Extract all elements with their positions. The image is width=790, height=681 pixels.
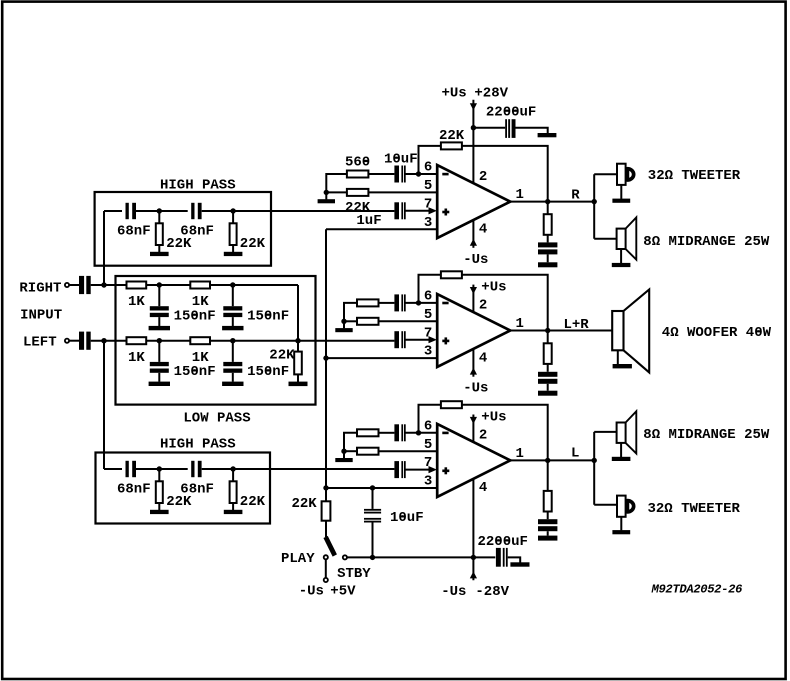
svg-text:+28V: +28V <box>474 86 508 102</box>
svg-text:5: 5 <box>424 437 432 453</box>
op-amp U1 (R channel) capacitor 2200uF supply <box>505 119 507 138</box>
top resistor 22K first <box>156 223 163 245</box>
wire 22K to ground <box>297 374 299 382</box>
svg-text:6: 6 <box>424 289 432 305</box>
svg-text:HIGH PASS: HIGH PASS <box>160 437 236 453</box>
node RIGHT input junction <box>101 282 106 287</box>
tweeter R (32ohm) dome <box>627 169 633 180</box>
op-amp U3 (L channel) -28V arrow up <box>470 571 477 578</box>
midrange R (8ohm) ground <box>612 263 631 267</box>
svg-text:1K: 1K <box>192 294 209 310</box>
op-amp U1 (R channel) node speaker branch <box>592 199 597 204</box>
op-amp U1 (R channel) -Us arrow up <box>470 239 477 246</box>
svg-text:5: 5 <box>424 307 432 323</box>
low-pass right-row node after first 1K <box>157 282 162 287</box>
op-amp U1 (R channel) ground 2200uF <box>538 133 557 137</box>
low-pass right-row wire r1 to r2 <box>146 284 190 286</box>
bottom wire cap2 to output <box>202 468 395 470</box>
tweeter R (32ohm) wire to ground <box>620 185 622 199</box>
op-amp U1 (R channel) wire zobel capacitor to ground <box>547 254 549 262</box>
top wire input to first 68nF cap <box>104 210 122 212</box>
low-pass right-row wire 150nF to ground second <box>232 317 234 326</box>
svg-text:-28V: -28V <box>475 584 509 600</box>
svg-text:22K: 22K <box>240 236 266 252</box>
svg-text:32Ω TWEETER: 32Ω TWEETER <box>648 168 741 184</box>
op-amp U2 (L+R woofer) node pin6 feedback tap <box>416 300 421 305</box>
op-amp U2 (L+R woofer) resistor 22K to pin5 <box>357 318 379 325</box>
node 10uF to STBY wire <box>370 555 375 560</box>
ground low-pass <box>289 382 308 387</box>
midrange L (8ohm) cone <box>626 411 637 453</box>
low-pass left-row wire r1 to r2 <box>146 340 190 342</box>
tweeter R (32ohm) ground <box>612 199 630 203</box>
low-pass left-row wire 150nF to ground second <box>232 373 234 382</box>
op-amp U3 (L channel) node output <box>545 458 550 463</box>
op-amp U2 (L+R woofer) wire pin3 to rail <box>326 357 437 359</box>
midrange L (8ohm) wire to ground <box>620 443 622 457</box>
op-amp U3 (L channel) feedback resistor 22K <box>441 401 462 408</box>
svg-text:+Us: +Us <box>442 86 467 102</box>
bottom resistor 22K first <box>156 481 163 503</box>
low-pass left-row resistor 1K second <box>190 337 210 344</box>
op-amp U3 (L channel) wire zobel capacitor to ground <box>547 531 549 535</box>
capacitor 10uF standby <box>364 509 381 511</box>
svg-text:1K: 1K <box>192 350 209 366</box>
wire pin3 node down to 10uF <box>372 488 374 509</box>
switch STBY contact <box>343 555 347 559</box>
low-pass left-row node after second 1K <box>230 338 235 343</box>
op-amp U3 (L channel) wire 560 left lead <box>344 433 357 451</box>
svg-text:M92TDA2052-26: M92TDA2052-26 <box>651 583 743 597</box>
bottom wire resistor to ground first <box>158 503 160 510</box>
low-pass left-row wire node to 150nF first <box>158 341 160 362</box>
svg-text:R: R <box>571 188 580 204</box>
svg-text:4: 4 <box>479 480 487 496</box>
low-pass left-row wire r2 onward <box>210 340 298 342</box>
tweeter R (32ohm) body <box>617 164 626 185</box>
op-amp U1 (R channel) minus sign <box>442 173 448 176</box>
op-amp U1 (R channel) feedback wire up from pin6 <box>419 146 441 174</box>
svg-text:INPUT: INPUT <box>20 307 62 323</box>
svg-text:68nF: 68nF <box>180 224 214 240</box>
woofer body <box>612 311 623 350</box>
top high-pass box <box>95 192 271 266</box>
op-amp U3 (L channel) wire output to zobel resistor <box>547 460 549 491</box>
midrange R (8ohm) cone <box>626 217 637 259</box>
svg-text:3: 3 <box>424 474 432 490</box>
op-amp U2 (L+R woofer) feedback resistor 22K <box>441 271 462 278</box>
top wire cap2 to output <box>202 210 395 212</box>
op-amp U3 (L channel) zobel resistor <box>544 491 552 512</box>
op-amp U3 (L channel) amplifier triangle <box>437 424 510 497</box>
top wire resistor to ground second <box>232 245 234 252</box>
low-pass right-row capacitor 150nF first <box>150 306 169 310</box>
resistor 22K standby <box>322 501 331 520</box>
op-amp U3 (L channel) wire output <box>510 459 594 461</box>
op-amp U2 (L+R woofer) wire junction to 22K left lead <box>344 320 357 322</box>
op-amp U3 (L channel) wire junction to 22K left lead <box>344 450 357 452</box>
svg-text:8Ω MIDRANGE 25W: 8Ω MIDRANGE 25W <box>643 234 770 250</box>
op-amp U1 (R channel) wire supply to 2200uF cap <box>473 127 505 129</box>
op-amp U2 (L+R woofer) supply arrow down <box>470 287 477 294</box>
op-amp U2 (L+R woofer) node resistor junction <box>341 319 346 324</box>
svg-text:L: L <box>571 445 579 461</box>
op-amp U1 (R channel) wire +28V supply to pin2 <box>472 100 474 184</box>
bottom ground first <box>150 510 169 514</box>
midrange L (8ohm) ground <box>612 457 631 461</box>
svg-text:PLAY: PLAY <box>281 551 315 567</box>
bottom high-pass box <box>96 453 271 524</box>
svg-text:STBY: STBY <box>337 566 371 582</box>
svg-text:2: 2 <box>479 298 487 314</box>
top capacitor 68nF second <box>191 203 194 219</box>
svg-text:2200uF: 2200uF <box>486 104 536 120</box>
low-pass left-row ground second <box>222 382 243 386</box>
op-amp U2 (L+R woofer) wire 560 to 10uF cap <box>379 302 395 304</box>
midrange R (8ohm) body <box>617 229 626 249</box>
switch lever <box>326 537 335 556</box>
svg-text:8Ω MIDRANGE 25W: 8Ω MIDRANGE 25W <box>643 427 770 443</box>
top node after second 68nF <box>230 208 235 213</box>
op-amp U1 (R channel) resistor 22K to pin5 <box>347 189 369 196</box>
top ground first <box>150 252 169 256</box>
op-amp U1 (R channel) wire 560 to 10uF cap <box>368 173 394 175</box>
svg-text:68nF: 68nF <box>117 224 151 240</box>
woofer ground <box>613 364 632 368</box>
op-amp U3 (L channel) capacitor 1uF series <box>394 461 399 478</box>
op-amp U2 (L+R woofer) wire output <box>510 330 612 332</box>
svg-text:3: 3 <box>424 215 432 231</box>
op-amp U3 (L channel) ground at input resistors <box>335 458 352 462</box>
PLAY lower terminal <box>324 578 328 582</box>
low-pass left-row node after first 1K <box>157 338 162 343</box>
svg-text:6: 6 <box>424 160 432 176</box>
svg-text:560: 560 <box>345 155 370 171</box>
op-amp U2 (L+R woofer) node output <box>545 328 550 333</box>
low-pass left-row wire node to 150nF second <box>232 341 234 362</box>
RIGHT input terminal <box>65 283 69 287</box>
svg-text:32Ω TWEETER: 32Ω TWEETER <box>648 501 741 517</box>
svg-text:150nF: 150nF <box>174 364 216 380</box>
wire LEFT terminal to coupling cap <box>69 340 79 342</box>
op-amp U1 (R channel) plus sign <box>442 211 449 214</box>
svg-text:-Us: -Us <box>463 381 488 397</box>
wire sum node to 22K resistor <box>297 341 299 352</box>
low-pass right-row resistor 1K first <box>127 282 147 289</box>
bottom wire node to 22K resistor first <box>158 469 160 481</box>
op-amp U1 (R channel) wire output <box>510 201 594 203</box>
op-amp U1 (R channel) wire 22K to pin5 <box>368 191 437 193</box>
low-pass right-row wire node to 150nF second <box>232 285 234 306</box>
switch PLAY contact <box>324 555 328 559</box>
ground 2200uF bottom <box>510 562 529 566</box>
svg-text:+5V: +5V <box>330 583 356 599</box>
low-pass right-row wire r2 onward <box>210 284 298 286</box>
svg-text:-Us: -Us <box>463 252 488 268</box>
op-amp U1 (R channel) node supply to 2200uF <box>471 125 476 130</box>
op-amp U2 (L+R woofer) capacitor 10uF series <box>394 294 399 311</box>
wire right-row down to left-row (sum node) <box>297 285 299 341</box>
svg-text:2: 2 <box>479 169 487 185</box>
op-amp U1 (R channel) wire 1uF to pin7 <box>405 210 429 212</box>
low-pass box <box>116 276 316 405</box>
op-amp U1 (R channel) feedback resistor 22K <box>441 142 462 149</box>
tweeter R (32ohm) wire <box>594 173 617 175</box>
midrange L (8ohm) wire <box>594 431 616 433</box>
svg-text:1uF: 1uF <box>356 213 381 229</box>
op-amp U2 (L+R woofer) wire 1uF to pin7 <box>405 339 429 341</box>
op-amp U3 (L channel) ground zobel <box>538 536 557 541</box>
op-amp U1 (R channel) wire junction to 22K left lead <box>326 191 347 193</box>
wire 10uF to STBY wire <box>372 522 374 557</box>
svg-text:2: 2 <box>479 428 487 444</box>
midrange R (8ohm) wire <box>594 238 616 240</box>
svg-text:68nF: 68nF <box>180 482 214 498</box>
node rail to bottom amp pin3 <box>323 485 328 490</box>
op-amp U2 (L+R woofer) wire pin4 to -Us <box>472 349 474 377</box>
svg-text:68nF: 68nF <box>117 482 151 498</box>
op-amp U1 (R channel) wire pin3 to rail <box>326 228 437 230</box>
svg-text:7: 7 <box>424 196 432 212</box>
svg-text:4: 4 <box>479 350 487 366</box>
svg-text:+Us: +Us <box>481 280 506 296</box>
svg-text:10uF: 10uF <box>384 151 418 167</box>
tweeter L (32ohm) body <box>617 496 626 517</box>
wire 2200uF to ground <box>508 557 521 562</box>
svg-text:LEFT: LEFT <box>23 335 57 351</box>
bottom node after second 68nF <box>230 466 235 471</box>
op-amp U1 (R channel) node resistor junction <box>324 190 329 195</box>
op-amp U1 (R channel) zobel capacitor <box>538 242 557 247</box>
op-amp U1 (R channel) node output <box>545 199 550 204</box>
wire LEFT cap to low-pass box <box>91 340 127 342</box>
node L+R sum <box>295 338 300 343</box>
op-amp U3 (L channel) minus sign <box>442 432 448 435</box>
svg-text:22K: 22K <box>292 496 318 512</box>
low-pass right-row node after second 1K <box>230 282 235 287</box>
top node after first 68nF <box>157 208 162 213</box>
op-amp U1 (R channel) capacitor 1uF series <box>394 202 399 219</box>
svg-text:2200uF: 2200uF <box>478 534 528 550</box>
low-pass right-row resistor 1K second <box>190 282 210 289</box>
node LEFT input junction <box>101 338 106 343</box>
low-pass left-row capacitor 150nF first <box>150 362 169 366</box>
op-amp U1 (R channel) input resistor to pin6 (560) <box>347 171 369 178</box>
op-amp U1 (R channel) wire 560 left lead <box>326 174 347 192</box>
top capacitor 68nF first <box>126 203 129 219</box>
resistor 22K low-pass shunt <box>294 352 302 375</box>
op-amp U3 (L channel) resistor 22K to pin5 <box>357 448 379 455</box>
op-amp U2 (L+R woofer) capacitor 1uF series <box>394 331 399 348</box>
op-amp U2 (L+R woofer) feedback wire up from pin6 <box>419 275 441 303</box>
op-amp U3 (L channel) wire 560 to 10uF cap <box>379 432 395 434</box>
op-amp U2 (L+R woofer) plus sign <box>442 340 449 343</box>
LEFT input terminal <box>65 339 69 343</box>
op-amp U2 (L+R woofer) wire +Us to pin2 <box>472 285 474 313</box>
op-amp U3 (L channel) node pin6 feedback tap <box>416 430 421 435</box>
bottom resistor 22K second <box>230 481 237 503</box>
low-pass right-row wire node to 150nF first <box>158 285 160 306</box>
svg-text:4: 4 <box>479 221 487 237</box>
op-amp U1 (R channel) wire zobel resistor to capacitor <box>547 235 549 243</box>
op-amp U2 (L+R woofer) -Us arrow up <box>470 368 477 375</box>
bottom wire cap1 to cap2 <box>136 468 188 470</box>
low-pass left-row ground first <box>149 382 170 386</box>
op-amp U1 (R channel) zobel resistor <box>544 214 552 235</box>
op-amp U1 (R channel) wire junction to ground <box>325 192 327 199</box>
svg-text:5: 5 <box>424 178 432 194</box>
wire LEFT junction down to bottom high-pass <box>103 341 105 469</box>
wire standby resistor to switch <box>325 521 327 537</box>
wire pin3 rail vertical <box>325 229 327 501</box>
op-amp U3 (L channel) wire 22K to pin5 <box>379 450 438 452</box>
op-amp U2 (L+R woofer) wire zobel resistor to capacitor <box>547 364 549 372</box>
wire RIGHT junction up to top high-pass <box>103 211 105 285</box>
op-amp U2 (L+R woofer) wire output to zobel resistor <box>547 331 549 344</box>
wire L output branch vertical <box>593 432 595 505</box>
low-pass right-row ground second <box>222 326 243 330</box>
op-amp U3 (L channel) wire 10uF to pin6 <box>405 432 437 434</box>
op-amp U1 (R channel) ground at input resistors <box>318 199 335 203</box>
bottom wire node to 22K resistor second <box>232 469 234 481</box>
svg-text:RIGHT: RIGHT <box>19 281 61 297</box>
low-pass left-row wire 150nF to ground first <box>158 373 160 382</box>
node rail to middle amp pin3 <box>323 355 328 360</box>
top resistor 22K second <box>230 223 237 245</box>
svg-text:1K: 1K <box>128 294 145 310</box>
op-amp U1 (R channel) ground zobel <box>538 262 557 267</box>
low-pass left-row capacitor 150nF second <box>223 362 242 366</box>
bottom wire input to first 68nF cap <box>104 468 122 470</box>
op-amp U3 (L channel) wire +Us to pin2 <box>472 415 474 443</box>
wire RIGHT terminal to coupling cap <box>69 284 79 286</box>
wire sum node to middle amp <box>298 340 394 342</box>
op-amp U3 (L channel) node speaker branch <box>592 458 597 463</box>
svg-text:150nF: 150nF <box>247 364 289 380</box>
tweeter L (32ohm) wire to ground <box>620 517 622 531</box>
op-amp U3 (L channel) wire zobel resistor to capacitor <box>547 512 549 520</box>
op-amp U1 (R channel) wire output to zobel resistor <box>547 202 549 215</box>
svg-text:7: 7 <box>424 455 432 471</box>
op-amp U2 (L+R woofer) wire 22K to pin5 <box>379 320 438 322</box>
op-amp U3 (L channel) feedback wire up from pin6 <box>419 405 441 433</box>
bottom capacitor 68nF first <box>126 461 129 477</box>
svg-text:150nF: 150nF <box>247 308 289 324</box>
op-amp U1 (R channel) capacitor 10uF series <box>394 166 399 183</box>
op-amp U1 (R channel) supply arrow down <box>470 103 477 110</box>
low-pass left-row resistor 1K first <box>127 337 147 344</box>
capacitor 2200uF -28V <box>496 548 501 567</box>
low-pass right-row capacitor 150nF second <box>223 306 242 310</box>
midrange L (8ohm) body <box>617 423 626 443</box>
op-amp U2 (L+R woofer) input resistor to pin6 (560) <box>357 299 379 306</box>
bottom capacitor 68nF second <box>191 461 194 477</box>
coupling capacitor RIGHT input <box>79 276 84 294</box>
midrange R (8ohm) wire to ground <box>620 249 622 263</box>
svg-text:-Us: -Us <box>441 584 466 600</box>
op-amp U2 (L+R woofer) wire 560 left lead <box>344 303 357 321</box>
tweeter L (32ohm) ground <box>612 530 630 534</box>
wire RIGHT cap to low-pass box <box>91 284 127 286</box>
low-pass right-row ground first <box>149 326 170 330</box>
tweeter L (32ohm) dome <box>627 501 633 512</box>
svg-text:LOW PASS: LOW PASS <box>183 410 250 426</box>
op-amp U2 (L+R woofer) ground zobel <box>538 391 557 396</box>
op-amp U1 (R channel) amplifier triangle <box>437 165 510 238</box>
node -28V rail to STBY wire <box>471 555 476 560</box>
coupling capacitor LEFT input <box>79 332 84 350</box>
svg-text:22K: 22K <box>439 128 465 144</box>
top wire cap1 to cap2 <box>136 210 188 212</box>
op-amp U3 (L channel) supply arrow down <box>470 417 477 424</box>
bottom wire resistor to ground second <box>232 503 234 510</box>
svg-text:10uF: 10uF <box>390 510 424 526</box>
op-amp U1 (R channel) node pin6 feedback tap <box>416 171 421 176</box>
woofer wire to ground <box>617 350 619 364</box>
op-amp U3 (L channel) capacitor 10uF series <box>394 424 399 441</box>
op-amp U2 (L+R woofer) wire junction to ground <box>343 321 345 328</box>
top wire node to 22K resistor second <box>232 211 234 223</box>
svg-text:+Us: +Us <box>481 410 506 426</box>
op-amp U1 (R channel) wire 10uF to pin6 <box>405 173 437 175</box>
bottom node after first 68nF <box>157 466 162 471</box>
svg-text:7: 7 <box>424 325 432 341</box>
woofer cone <box>624 290 650 373</box>
op-amp U2 (L+R woofer) ground at input resistors <box>335 328 352 332</box>
op-amp U1 (R channel) wire 2200uF to ground <box>516 128 548 134</box>
op-amp U2 (L+R woofer) wire zobel capacitor to ground <box>547 384 549 391</box>
op-amp U3 (L channel) wire junction to ground <box>343 451 345 458</box>
wire PLAY contact down <box>325 559 327 578</box>
wire STBY contact to -28V rail and 2200uF <box>347 556 495 558</box>
op-amp U3 (L channel) plus sign <box>442 470 449 473</box>
op-amp U3 (L channel) wire 1uF to pin7 <box>405 469 429 471</box>
op-amp U2 (L+R woofer) zobel resistor <box>544 343 552 364</box>
svg-text:3: 3 <box>424 344 432 360</box>
op-amp U3 (L channel) arrow into pin7 <box>429 466 437 473</box>
op-amp U2 (L+R woofer) zobel capacitor <box>538 372 557 377</box>
svg-text:L+R: L+R <box>564 317 590 333</box>
op-amp U3 (L channel) node resistor junction <box>341 449 346 454</box>
bottom ground second <box>224 510 243 514</box>
tweeter L (32ohm) wire <box>594 504 617 506</box>
node pin3 to 10uF branch <box>370 485 375 490</box>
top wire resistor to ground first <box>158 245 160 252</box>
svg-text:1K: 1K <box>128 350 145 366</box>
svg-text:-Us: -Us <box>299 583 324 599</box>
op-amp U1 (R channel) feedback wire to output <box>462 146 548 202</box>
svg-text:22K: 22K <box>240 494 266 510</box>
svg-text:150nF: 150nF <box>174 308 216 324</box>
top wire node to 22K resistor first <box>158 211 160 223</box>
op-amp U2 (L+R woofer) minus sign <box>442 302 448 305</box>
op-amp U2 (L+R woofer) arrow into pin7 <box>429 336 437 343</box>
top ground second <box>224 252 243 256</box>
svg-text:22K: 22K <box>269 348 295 364</box>
op-amp U3 (L channel) wire pin4 down to -28V rail <box>472 479 474 581</box>
svg-text:4Ω WOOFER 40W: 4Ω WOOFER 40W <box>662 325 772 341</box>
op-amp U2 (L+R woofer) feedback wire to output <box>462 275 548 331</box>
op-amp U1 (R channel) wire pin4 to -Us <box>472 220 474 248</box>
op-amp U3 (L channel) zobel capacitor <box>538 519 557 524</box>
op-amp U2 (L+R woofer) wire 10uF to pin6 <box>405 302 437 304</box>
low-pass right-row wire 150nF to ground first <box>158 317 160 326</box>
op-amp U1 (R channel) arrow into pin7 <box>429 207 437 214</box>
op-amp U3 (L channel) wire pin3 to rail <box>326 487 437 489</box>
op-amp U2 (L+R woofer) amplifier triangle <box>437 294 510 367</box>
op-amp U3 (L channel) feedback wire to output <box>462 405 548 461</box>
svg-text:6: 6 <box>424 418 432 434</box>
